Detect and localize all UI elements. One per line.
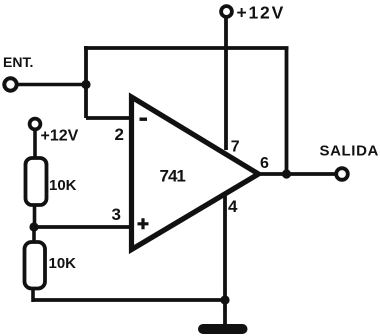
svg-text:+12V: +12V [41,128,79,145]
wire pin 4 vertical down [223,196,227,301]
op-amp non-inverting input plus sign [138,218,149,229]
svg-text:741: 741 [160,167,186,186]
wire output pin 6 to SALIDA [258,172,336,176]
terminal +12V left divider [30,119,41,130]
svg-text:+12V: +12V [237,3,286,23]
ground [198,324,248,334]
node ground junction dot (pin 4 / bottom rail) [220,295,229,304]
node output junction dot (pin 6 / feedback) [282,169,291,178]
svg-text:ENT.: ENT. [3,54,33,70]
wire left +12V stem to R1 [33,129,37,160]
svg-text:4: 4 [228,197,238,216]
wire top feedback horizontal [84,46,289,50]
svg-text:6: 6 [260,155,269,172]
wire bottom rail [33,298,226,302]
wire R2 to bottom rail [31,287,35,302]
svg-text:2: 2 [115,125,124,144]
terminal SALIDA output [336,168,348,180]
svg-text:10K: 10K [49,255,77,272]
resistor R1 10K body [26,158,47,205]
wire pin 2 input [86,116,130,120]
wire node A vertical (feedback branch down to pin 2) [84,46,88,118]
wire ENT input to node A [16,83,86,87]
wire +12V supply vertical to pin 7 [224,17,228,150]
wire R1 to node B [33,204,37,229]
op-amp inverting input minus sign [140,118,148,121]
terminal +12V top [221,6,232,17]
svg-text:10K: 10K [49,177,77,194]
svg-text:SALIDA: SALIDA [320,143,379,160]
wire feedback right vertical down to output node [285,48,289,174]
wire pin 3 input from divider [34,225,130,229]
wire node B to R2 [32,227,36,244]
node B junction dot (divider midpoint to pin 3) [29,222,38,231]
node A junction dot (ENT / feedback / pin 2) [81,80,90,89]
terminal ENT input [4,78,16,90]
svg-text:3: 3 [112,205,121,224]
resistor R2 10K body [25,242,46,289]
svg-text:7: 7 [231,139,240,156]
wire ground stub [223,300,227,326]
op-amp U1 741 triangle [132,97,259,250]
